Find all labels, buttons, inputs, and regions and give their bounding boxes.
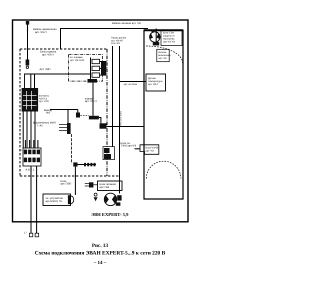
relay aux contact <box>76 113 80 118</box>
svg-text:арт. ЧЭ-П-ЗУ: арт. ЧЭ-П-ЗУ <box>70 59 85 62</box>
svg-text:арт. ЧЭ-Н: арт. ЧЭ-Н <box>42 54 54 57</box>
node junction square <box>73 162 77 166</box>
wire valve <box>92 83 94 116</box>
wire terminal in c <box>33 140 35 148</box>
border frame <box>13 20 189 222</box>
wire relay to terminal d <box>34 112 36 149</box>
wire to level label box <box>135 148 141 150</box>
connector on bus mid <box>100 123 107 128</box>
svg-text:– 14 –: – 14 – <box>93 260 107 266</box>
drain symbol <box>94 193 98 201</box>
terminal block X1 <box>23 148 41 166</box>
wire to relay <box>30 74 32 88</box>
coil on sub-box edge <box>88 79 98 83</box>
contact 2 <box>92 66 107 70</box>
label box thermal protection <box>161 30 182 46</box>
wire relay to terminal b <box>26 112 28 149</box>
wire ground cable <box>27 32 29 60</box>
svg-text:арт. ок ЧЭ-Н: арт. ок ЧЭ-Н <box>124 83 138 86</box>
wire mains N <box>36 166 38 233</box>
plug P1 top (ground cable entry) <box>26 21 29 32</box>
svg-text:арт. ЧЭ: арт. ЧЭ <box>146 149 154 152</box>
svg-text:арт. ЧЭ-П: арт. ЧЭ-П <box>35 31 47 34</box>
wire to temp sensor box <box>120 81 147 83</box>
svg-text:Арт. ЧЭП: Арт. ЧЭП <box>40 68 51 71</box>
wire terminal in a <box>24 140 26 148</box>
svg-text:ТЭНЗ арт.ЧЭ: ТЭНЗ арт.ЧЭ <box>121 145 137 148</box>
svg-text:Рис. 13: Рис. 13 <box>92 243 109 249</box>
label box level sensor <box>140 145 159 155</box>
svg-text:ЭВН EXPERT- 5,9: ЭВН EXPERT- 5,9 <box>91 212 129 217</box>
svg-text:арт.5220Л, ТБ: арт.5220Л, ТБ <box>46 200 63 203</box>
wire down to control unit <box>74 167 76 195</box>
label box power button <box>157 49 169 61</box>
svg-text:сеть ЧЭ: сеть ЧЭ <box>111 42 120 45</box>
enclosure dashed box <box>20 49 119 176</box>
motor M2 <box>104 193 121 206</box>
wire sensor pair b <box>119 46 121 194</box>
power supply box <box>98 181 123 191</box>
contact 3 <box>92 73 107 77</box>
contact 1 <box>92 59 107 63</box>
relay K1 block <box>22 88 38 112</box>
label box temp sensor <box>146 74 166 91</box>
control unit box <box>43 194 71 206</box>
connector J2 prongs <box>59 123 71 134</box>
wire with crimp ticks <box>78 163 97 166</box>
svg-text:Схема подключения ЭВАН EXPERT-: Схема подключения ЭВАН EXPERT-5...9 к се… <box>35 251 166 257</box>
wire terminal in b <box>29 140 31 148</box>
svg-text:Кабель питания арт. ЧЭ: Кабель питания арт. ЧЭ <box>112 22 141 25</box>
wire valve to bus <box>99 118 101 124</box>
tank outline <box>144 30 183 199</box>
contact ladder rail <box>90 58 92 80</box>
svg-text:Т-А5: Т-А5 <box>37 124 43 127</box>
plug P2 <box>26 60 30 69</box>
tank dome arc top (dashed) <box>146 46 183 64</box>
wire dashed link to valve <box>80 115 89 117</box>
wire terminal in d <box>37 140 39 148</box>
pump M1 <box>149 29 160 46</box>
svg-text:арт. ЧЭ-П: арт. ЧЭ-П <box>85 100 97 103</box>
svg-text:арт. ПЭП: арт. ПЭП <box>61 183 72 186</box>
wire mains L <box>30 166 32 233</box>
connector D1 <box>68 195 74 204</box>
wire relay to terminal c <box>30 112 32 149</box>
svg-text:РУБ ОН ЭВН: РУБ ОН ЭВН <box>120 111 123 126</box>
wire mains feed top <box>61 29 149 50</box>
wire sensor pair a <box>112 46 114 147</box>
wire partition <box>71 134 73 164</box>
tank top edge thick <box>144 29 183 31</box>
plug P3 <box>85 182 98 187</box>
svg-text:арт. ЧЭ-Т: арт. ЧЭ-Т <box>148 83 159 86</box>
svg-text:№5: №5 <box>46 112 51 115</box>
wire branch to switch <box>50 110 78 124</box>
enclosure right edge (dash-dot) <box>106 49 108 176</box>
tank dome arc bottom (dashed) <box>146 161 181 178</box>
svg-text:арт. ЧТО: арт. ЧТО <box>39 100 49 103</box>
lug N <box>35 233 39 237</box>
bus connector blobs <box>101 62 106 76</box>
wire to relay <box>34 74 36 88</box>
wire relay to terminal a <box>22 112 24 149</box>
svg-text:А В С 1: А В С 1 <box>26 169 35 172</box>
svg-text:арт. ГВ2: арт. ГВ2 <box>100 186 110 189</box>
valve Y1 <box>89 116 99 120</box>
svg-text:арт. ЧЭ: арт. ЧЭ <box>158 57 166 60</box>
contactor sub-box (dash-dot) <box>69 55 103 82</box>
lug L <box>29 233 32 237</box>
connector block lower on bus <box>103 147 115 160</box>
wire heater link <box>107 126 144 128</box>
inner mounting line <box>25 74 91 88</box>
svg-text:при ЧЭ ЧЭ: при ЧЭ ЧЭ <box>163 41 175 44</box>
